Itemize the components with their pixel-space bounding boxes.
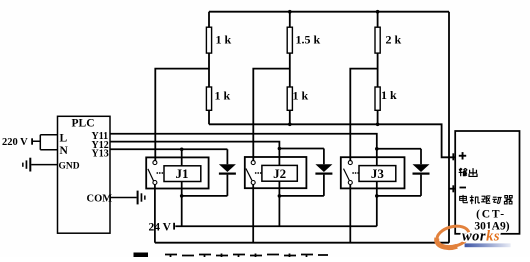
wire J2 coil bottom to 24V rail — [278, 181, 280, 226]
wire Y12 branch to diode D2 — [279, 148, 324, 150]
svg-text:1.5 k: 1.5 k — [296, 33, 321, 47]
node Y11 junction — [375, 147, 379, 151]
resistor R2 1.5k — [287, 27, 292, 53]
wire resistor-bottom rail to plus — [209, 124, 455, 157]
wire column 2 vertical — [289, 12, 291, 125]
wire bottom rail — [155, 242, 449, 244]
relay J3 contact circles — [348, 161, 352, 185]
ground symbol (COM / 24V supply) — [137, 191, 146, 205]
svg-text:GND: GND — [59, 162, 80, 172]
relay J1 contact circles — [153, 161, 157, 185]
caption tops (cut off at bottom edge) — [134, 253, 149, 258]
wire Y13 drop to coil J1 — [181, 149, 183, 166]
node bottom rail col2 — [288, 123, 292, 127]
relay J3 box — [341, 157, 405, 188]
relay J2 linkage dots — [255, 172, 262, 174]
terminal tick minus — [452, 185, 454, 192]
wire J2 lower contact to bottom rail — [252, 185, 254, 243]
svg-text:Y13: Y13 — [92, 149, 109, 160]
svg-text:1 k: 1 k — [215, 89, 231, 103]
label plus — [459, 152, 466, 159]
wire 220V feed — [33, 135, 58, 150]
relay J3 switch arm — [344, 169, 350, 181]
svg-text:J1: J1 — [176, 166, 189, 181]
wire GND stub — [31, 164, 57, 166]
svg-text:1 k: 1 k — [381, 88, 397, 102]
node Y13 junction — [180, 148, 184, 152]
wire mid node 1 — [155, 69, 209, 161]
wire J3 diode return — [377, 195, 421, 197]
wire top rail — [209, 11, 449, 13]
resistor R1 1k — [206, 27, 211, 53]
wire COM stub — [110, 197, 137, 199]
terminal tick 24V — [173, 223, 175, 230]
label 电机驱动器 (motor driver) drawn glyphs — [460, 195, 513, 204]
label 输出 (output) drawn glyphs — [459, 168, 477, 177]
node Y12 junction — [278, 147, 282, 151]
ground symbol (GND) — [22, 158, 31, 172]
wire Y11 output line — [110, 134, 377, 166]
wire Y12 output line — [110, 142, 279, 166]
watermark e-works — [435, 223, 511, 250]
node top rail col2 — [288, 10, 292, 14]
svg-text:N: N — [60, 145, 69, 157]
wire 24V rail — [175, 225, 376, 227]
wire Y13 output line — [110, 148, 227, 150]
wire J3 lower contact to bottom rail — [349, 185, 351, 243]
relay J3 coil box — [359, 166, 396, 182]
relay J2 box — [245, 157, 307, 188]
wire column 1 vertical — [208, 12, 210, 125]
node bottom rail col3 — [376, 123, 380, 127]
wire column 3 vertical — [377, 12, 379, 125]
wire Y11 branch to diode D3 — [377, 148, 421, 150]
wire J2 diode return — [279, 195, 324, 197]
svg-text:(CT-: (CT- — [476, 209, 506, 221]
resistor R6 1k — [375, 87, 380, 110]
wire J3 coil bottom to 24V rail — [376, 181, 378, 226]
diode D3 — [413, 149, 430, 196]
node J1 coil-diode junction — [180, 194, 184, 198]
relay J3 linkage dots — [352, 172, 359, 174]
motor driver box U2 — [455, 131, 519, 234]
wire J1 coil bottom to 24V rail — [181, 182, 183, 227]
wire J1 diode return — [182, 195, 228, 197]
svg-text:J3: J3 — [371, 166, 385, 181]
svg-text:works: works — [462, 229, 500, 245]
wire minus stub — [449, 188, 455, 190]
PLC box U1 — [58, 116, 111, 233]
svg-text:1 k: 1 k — [293, 89, 309, 103]
svg-text:1 k: 1 k — [216, 33, 232, 47]
resistor R4 1k — [206, 87, 211, 110]
svg-text:220 V: 220 V — [2, 137, 28, 148]
node J3 coil-diode junction — [375, 194, 379, 198]
diode D2 — [315, 149, 332, 196]
wire mid node 3 — [350, 69, 377, 161]
node J2 coil-diode junction — [278, 194, 282, 198]
svg-text:2 k: 2 k — [386, 33, 402, 47]
terminal tick plus — [452, 153, 454, 160]
relay J1 linkage dots — [156, 172, 163, 174]
relay J2 contact circles — [251, 161, 255, 185]
svg-text:COM: COM — [87, 193, 113, 204]
wire mid node 2 — [253, 69, 289, 161]
svg-text:24 V: 24 V — [149, 222, 172, 234]
svg-text:PLC: PLC — [72, 118, 95, 130]
wire J1 lower contact to bottom rail — [154, 185, 156, 243]
wire right bus (to minus) — [448, 12, 450, 243]
svg-text:J2: J2 — [273, 166, 286, 181]
relay J2 switch arm — [246, 169, 252, 181]
relay J2 coil box — [262, 165, 297, 181]
resistor R5 1k — [287, 87, 292, 110]
relay J1 box — [146, 157, 208, 188]
node top rail col3 — [376, 10, 380, 14]
svg-text:L: L — [60, 133, 68, 145]
diode D1 — [219, 149, 236, 196]
label minus — [460, 187, 467, 189]
resistor R3 2k — [375, 27, 380, 53]
relay J1 switch arm — [148, 169, 154, 181]
relay J1 coil box — [164, 166, 201, 182]
terminal tick 220V — [31, 138, 33, 144]
